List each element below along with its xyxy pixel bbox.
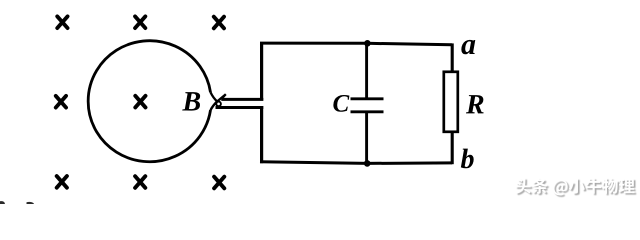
flux cross x3 row1c3 — [214, 17, 224, 29]
loop crossover lower arm with barb — [211, 94, 226, 110]
left vertical wire upper — [260, 42, 263, 101]
label B — [182, 92, 200, 110]
loop crossover upper arm — [211, 92, 218, 101]
capacitor lower vertical wire — [365, 113, 368, 164]
flux cross x5 row2c2 inside loop — [135, 96, 145, 108]
top lead wire — [221, 98, 263, 101]
bottom lead wire — [216, 106, 264, 109]
right vertical wire upper — [451, 43, 454, 72]
watermark 头条@小牛物理 embossed — [515, 178, 636, 197]
top wire — [260, 43, 452, 45]
conducting loop circle — [88, 41, 210, 162]
left vertical wire lower — [260, 106, 263, 163]
flux cross x8 row3c3 — [214, 177, 224, 189]
label b — [461, 149, 474, 169]
capacitor top plate — [351, 97, 384, 100]
bottom-left cropped watermark remnant 2 — [27, 202, 34, 204]
flux cross x6 row3c1 — [57, 176, 67, 188]
right vertical wire lower — [451, 132, 454, 164]
flux cross x4 row2c1 — [56, 96, 66, 108]
flux cross x1 row1c1 — [57, 16, 67, 28]
bottom-left cropped watermark remnant 1 — [0, 201, 5, 204]
loop crossover knot — [216, 102, 221, 107]
label a — [461, 40, 475, 54]
flux cross x7 row3c2 — [135, 176, 145, 188]
junction dot bottom — [364, 160, 371, 167]
capacitor upper vertical wire — [365, 43, 368, 98]
resistor R box — [444, 72, 458, 132]
label R — [466, 95, 484, 113]
capacitor bottom plate — [351, 110, 384, 113]
label C — [333, 95, 349, 112]
flux cross x2 row1c2 — [135, 16, 145, 28]
bottom wire — [260, 162, 452, 164]
junction dot top — [364, 40, 371, 47]
